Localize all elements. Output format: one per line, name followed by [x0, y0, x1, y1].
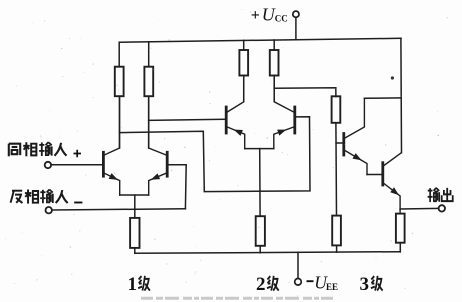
resistor R3 (stage1 tail) [130, 218, 139, 248]
resistor R5 (stage2 right load) [273, 40, 275, 50]
wire: bias chain middle [335, 123, 338, 216]
svg-text:U: U [262, 4, 276, 24]
transistor Q2 (stage1 right) [149, 96, 168, 195]
terminal non-inverting input [45, 162, 51, 168]
wire: inverting input run [52, 209, 185, 210]
wire: Q5 base [336, 142, 343, 144]
resistor R8 (bias lower) [332, 216, 341, 246]
top supply rail +UCC [119, 38, 401, 42]
resistor R6 (stage2 tail) [256, 216, 265, 246]
right supply rail (vertical) [400, 38, 403, 153]
wire: stage2 right collector to bias chain [274, 88, 336, 97]
svg-text:1: 1 [128, 274, 138, 295]
wire: Q1 collector to Q4 base (cross-coupling) [120, 117, 311, 192]
label +UCC [251, 4, 288, 24]
wire: riser to Q2 base [168, 165, 186, 209]
transistor Q5 (darlington first) [344, 98, 367, 174]
wire: Q5 emitter to Q6 base [367, 174, 382, 176]
terminal output [439, 205, 445, 211]
wire: Q2 collector to Q3 base [149, 119, 225, 120]
wire: stage1 tail [134, 195, 136, 218]
wire: stage2 emitter join [245, 148, 274, 150]
transistor Q4 (stage2 right, PNP) [274, 76, 295, 149]
bottom supply rail -UEE [135, 252, 400, 254]
label 2级 [256, 274, 279, 295]
resistor R2 lead + body [148, 42, 150, 67]
resistor R4 (stage2 left load) [243, 40, 245, 50]
label 输出 [428, 188, 453, 202]
label 反相输入 - [11, 190, 83, 204]
label -UEE [307, 273, 339, 293]
resistor R9 (output) [396, 214, 405, 243]
terminal +UCC [293, 11, 299, 17]
label 1级 [128, 274, 150, 295]
svg-text:3: 3 [360, 274, 370, 295]
transistor Q1 (stage1 left) [103, 96, 119, 195]
wire: Q5 collector top run [364, 97, 401, 99]
svg-text:+: + [251, 7, 260, 24]
resistor R1 lead + body [118, 42, 120, 66]
wire: output tap [400, 207, 438, 210]
label 同相输入 + [9, 142, 81, 157]
svg-text:CC: CC [275, 14, 288, 24]
+UCC terminal lead [295, 18, 297, 40]
-UEE terminal lead [297, 252, 299, 278]
resistor R7 (bias upper) [332, 96, 341, 123]
svg-text:2: 2 [256, 274, 266, 295]
svg-text:EE: EE [326, 282, 338, 292]
caption remnant streak [141, 297, 334, 300]
wire: stage2 tail [259, 149, 261, 217]
terminal -UEE [295, 279, 302, 286]
wire: stage1 emitter join [120, 194, 149, 196]
label 3级 [360, 274, 383, 295]
wire: non-inverting input to Q1 base [51, 164, 102, 166]
junction speck [391, 76, 394, 79]
terminal inverting input [46, 207, 52, 213]
transistor Q3 (stage2 left, PNP) [226, 76, 245, 149]
transistor Q6 (darlington second) [383, 153, 401, 214]
